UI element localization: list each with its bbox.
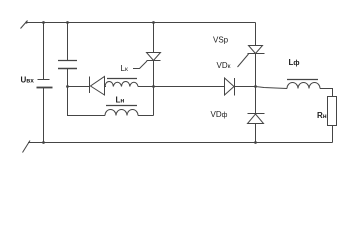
inductor Lk coil <box>105 82 138 87</box>
svg-text:Uвх: Uвх <box>21 76 35 85</box>
inductor Ln core bar <box>106 105 137 107</box>
thyristor VSp gate <box>238 54 249 67</box>
svg-text:Lн: Lн <box>116 96 125 105</box>
inductor Lf core bar <box>287 79 318 81</box>
svg-text:Lф: Lф <box>289 58 300 67</box>
diode VDf cathode bar <box>248 113 265 115</box>
thyristor VSp triangle <box>249 46 263 54</box>
inductor Lf coil <box>287 83 320 89</box>
svg-text:VDф: VDф <box>211 110 228 119</box>
diode VDk triangle <box>225 78 235 95</box>
thyristor VS1 triangle <box>147 53 161 61</box>
diode VDk cathode bar <box>234 78 236 96</box>
thyristor VS1 cathode bar <box>147 60 161 62</box>
wire bottom rail <box>28 142 333 144</box>
capacitor C bottom plate <box>58 68 77 70</box>
node top-left <box>25 21 27 23</box>
wire top rail <box>26 22 256 24</box>
node top x43 <box>42 21 45 24</box>
switch SA bottom <box>23 141 31 153</box>
svg-text:VSp: VSp <box>213 36 229 45</box>
node x255 mid <box>254 85 257 88</box>
node top x67 <box>66 21 69 24</box>
diode VD1 triangle <box>91 77 105 96</box>
inductor Ln coil <box>105 110 138 116</box>
node x153 mid <box>152 85 155 88</box>
capacitor C top plate <box>58 60 77 62</box>
node x67 mid <box>66 85 69 88</box>
battery Uvx top plate <box>38 79 50 81</box>
svg-text:VDк: VDк <box>217 61 231 70</box>
svg-text:Lк: Lк <box>121 64 128 73</box>
thyristor VSp cathode bar <box>248 53 265 55</box>
wire battery drop <box>43 23 45 80</box>
node bottom x43 <box>42 141 45 144</box>
inductor Lk core bar <box>107 78 137 80</box>
wire VDk to node <box>235 86 256 88</box>
wire Ln to node <box>138 115 154 117</box>
wire VDf to bottom rail <box>255 124 257 143</box>
wire VSp drop <box>255 23 257 46</box>
switch SA top <box>21 21 28 29</box>
diode VD1 cathode bar <box>89 77 91 94</box>
wire thyristor to Ln node <box>153 61 155 116</box>
resistor Rn body <box>328 97 337 126</box>
battery Uvx bottom plate <box>37 87 53 89</box>
thyristor VS1 gate <box>133 61 147 69</box>
wire battery to bottom rail <box>43 88 45 143</box>
node top x153 <box>152 21 155 24</box>
wire VSp to VDf <box>255 54 257 115</box>
svg-text:Rн: Rн <box>317 111 327 120</box>
wire node to diode <box>68 86 90 88</box>
wire thyristor drop <box>153 23 155 53</box>
node bottom x255 <box>254 141 257 144</box>
diode VDf triangle <box>248 114 264 124</box>
wire cap down and to Ln <box>68 69 106 116</box>
wire diode to Lk <box>105 86 107 88</box>
wire Lk to VDk <box>138 86 225 88</box>
wire Lf to Rn <box>320 89 333 97</box>
wire Rn to bottom rail <box>332 126 334 143</box>
wire cap drop <box>67 23 69 61</box>
wire node to Lf <box>256 87 288 89</box>
